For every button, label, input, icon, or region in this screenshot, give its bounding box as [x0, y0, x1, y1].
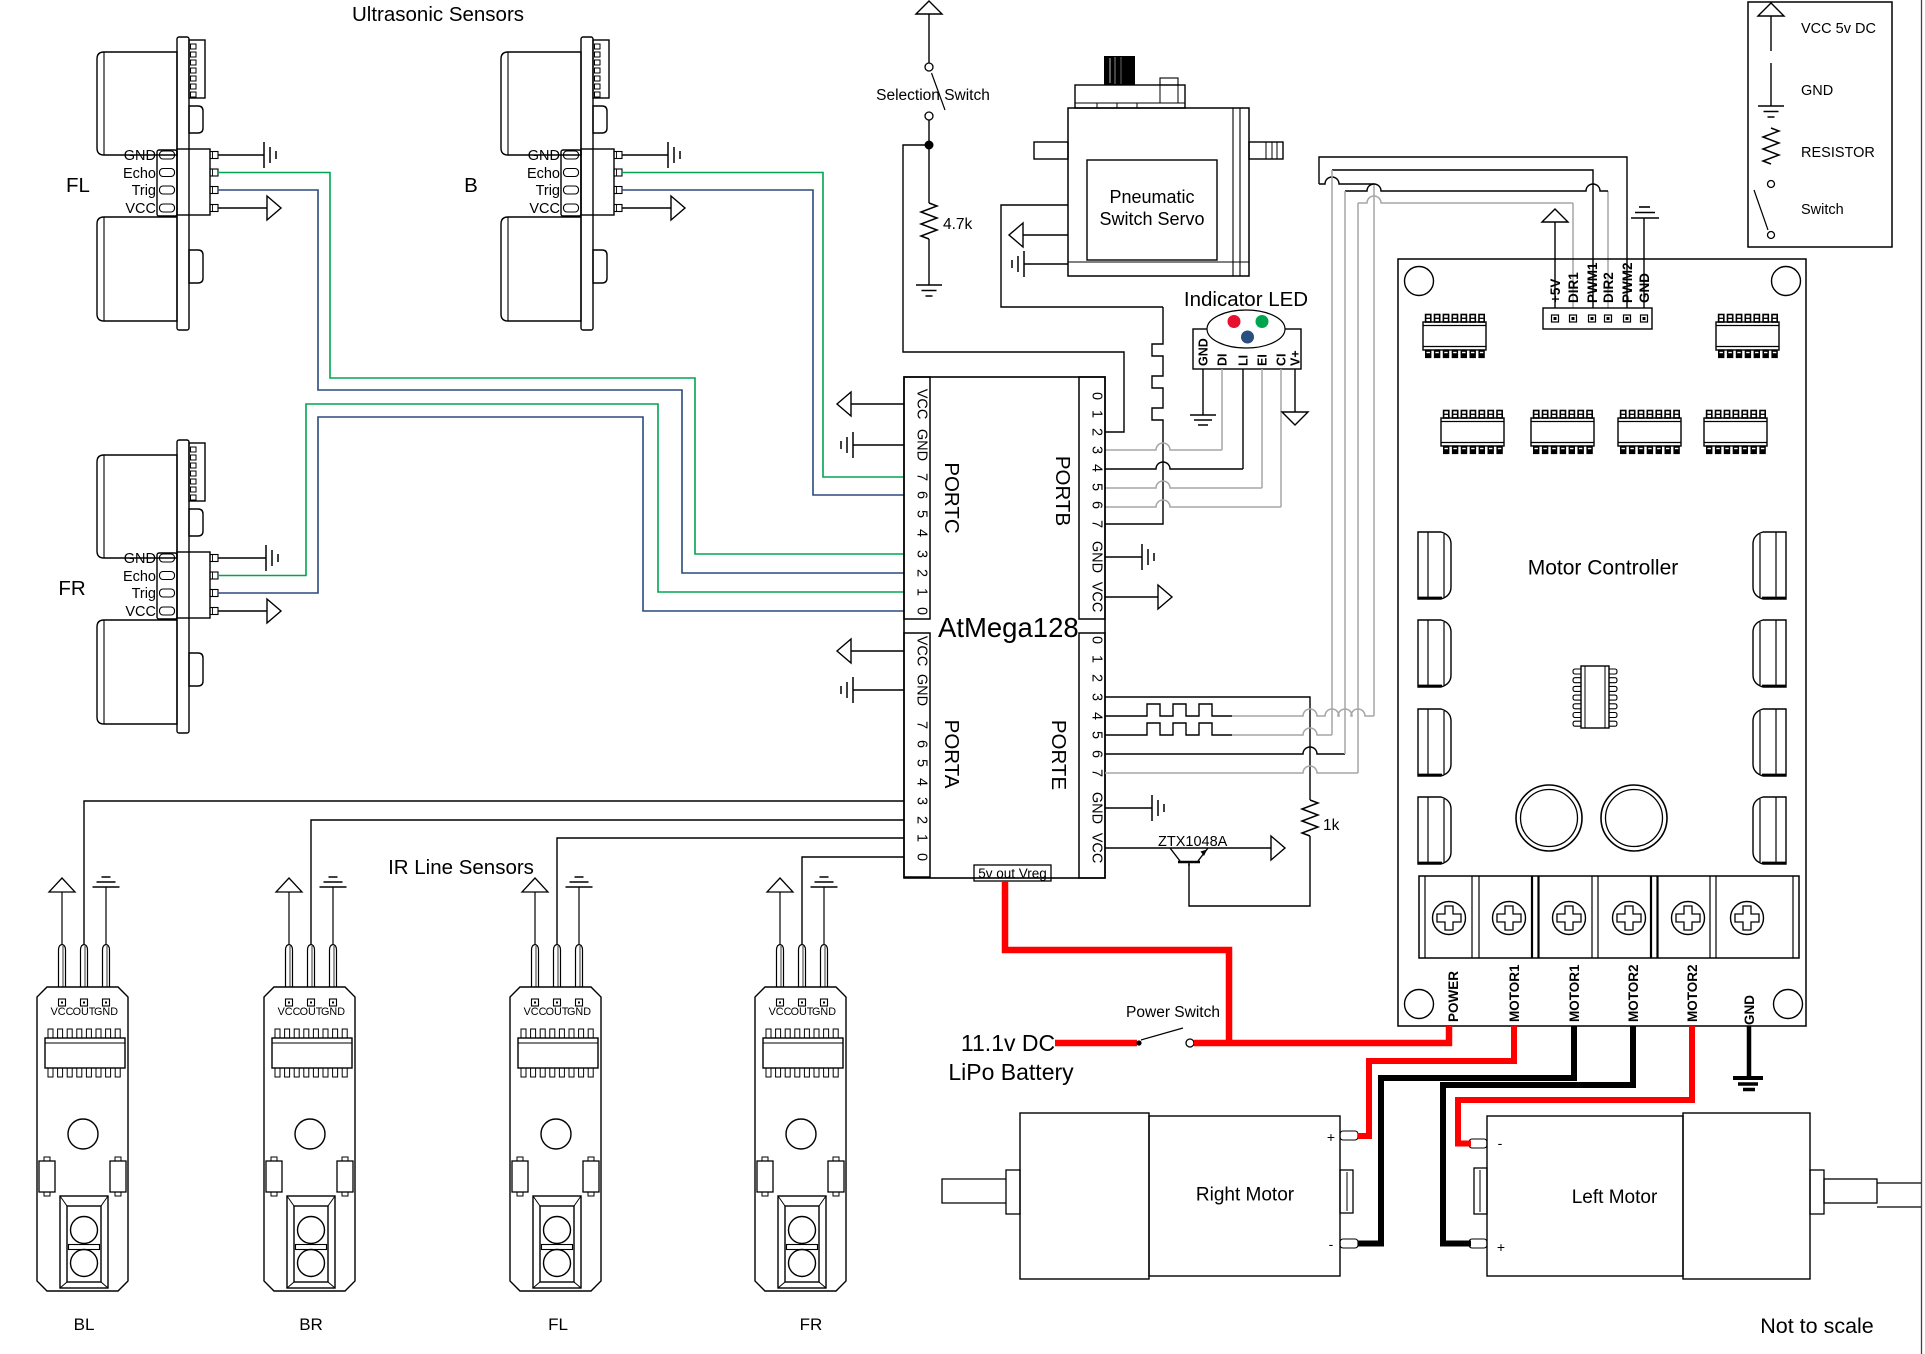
FET left 1 — [1418, 532, 1451, 599]
svg-text:PWM2: PWM2 — [1620, 263, 1635, 304]
svg-text:FL: FL — [66, 174, 90, 197]
wire vertical — [1373, 184, 1375, 716]
svg-text:+: + — [1497, 1239, 1505, 1255]
PORTA connector — [904, 633, 930, 877]
svg-text:RESISTOR: RESISTOR — [1801, 145, 1875, 161]
wire to PORTB2 — [903, 145, 1124, 432]
B Trig wire (blue) to PORTC6 — [622, 190, 904, 495]
svg-text:Not to scale: Not to scale — [1760, 1314, 1874, 1338]
svg-text:VCC: VCC — [125, 201, 156, 217]
Right Motor - terminal — [1340, 1239, 1358, 1248]
svg-text:VCC: VCC — [914, 389, 930, 420]
PORTE VCC wire — [1105, 847, 1271, 849]
svg-text:4: 4 — [914, 778, 930, 786]
servo inner label panel — [1087, 160, 1217, 260]
terminal screw 2 — [1493, 902, 1526, 935]
svg-text:LI: LI — [1237, 355, 1251, 366]
red LED — [1228, 315, 1241, 328]
servo top hat — [1075, 85, 1185, 108]
svg-text:Trig: Trig — [536, 183, 560, 199]
red wire MOTOR2 to Left Motor - — [1458, 1026, 1692, 1144]
svg-text:Selection Switch: Selection Switch — [876, 87, 990, 104]
mounting hole — [1405, 267, 1434, 296]
legend switch — [1768, 181, 1775, 188]
svg-text:Trig: Trig — [132, 183, 156, 199]
svg-text:2: 2 — [1089, 428, 1105, 436]
svg-text:EI: EI — [1256, 354, 1270, 366]
PORTB GND wire — [1105, 556, 1142, 558]
VCC arrow — [1542, 209, 1568, 222]
svg-text:GND: GND — [1637, 273, 1652, 303]
ground (up) — [1631, 207, 1659, 218]
PORTE GND wire — [1105, 807, 1152, 809]
svg-text:7: 7 — [1089, 520, 1105, 528]
svg-text:MOTOR1: MOTOR1 — [1567, 964, 1582, 1022]
black wire MOTOR2 to Left Motor + — [1443, 1026, 1633, 1244]
svg-text:-: - — [1498, 1135, 1503, 1151]
svg-text:Power Switch: Power Switch — [1126, 1004, 1220, 1021]
servo knob — [1104, 56, 1135, 85]
svg-text:V+: V+ — [1289, 350, 1303, 366]
wire — [928, 239, 930, 285]
FET right 1 — [1753, 532, 1786, 599]
PORTE4 wire with PWM pulse — [1105, 704, 1232, 716]
FL GND wire — [218, 154, 264, 156]
svg-text:VCC: VCC — [1089, 582, 1105, 613]
wire vertical — [1344, 191, 1346, 754]
wire — [928, 120, 930, 145]
transistor Q1 ZTX1048A — [1170, 848, 1208, 866]
terminal screw 6 — [1731, 902, 1764, 935]
mounting hole — [1772, 267, 1801, 296]
svg-text:PWM1: PWM1 — [1585, 262, 1600, 303]
svg-text:PORTC: PORTC — [940, 462, 963, 534]
svg-text:BR: BR — [299, 1315, 323, 1334]
svg-text:5v out Vreg: 5v out Vreg — [978, 866, 1047, 881]
Left Motor + terminal — [1469, 1239, 1487, 1248]
FL Echo wire (green) to PORTC3 — [218, 173, 904, 555]
VCC arrow down — [1282, 412, 1308, 425]
terminal screw 5 — [1672, 902, 1705, 935]
Right Motor commutator — [1340, 1170, 1353, 1213]
ground — [916, 285, 942, 296]
selection switch VCC arrow — [916, 1, 942, 14]
ground — [841, 677, 853, 703]
IC chip U5 — [1531, 411, 1594, 454]
junction node — [925, 141, 934, 150]
FR GND wire — [218, 557, 266, 559]
svg-text:FR: FR — [800, 1315, 823, 1334]
svg-text:Trig: Trig — [132, 586, 156, 602]
LED header — [1193, 329, 1301, 369]
svg-text:4.7k: 4.7k — [943, 216, 973, 233]
PORTC connector — [904, 377, 930, 619]
red wire POWER stub — [1446, 1026, 1453, 1046]
FR Echo wire (green) to PORTC1 — [218, 404, 904, 592]
IR sensor FL2 — [510, 877, 601, 1291]
svg-text:1: 1 — [914, 834, 930, 842]
svg-text:GND: GND — [1089, 792, 1105, 824]
svg-text:+: + — [1327, 1129, 1335, 1145]
svg-text:VCC: VCC — [914, 636, 930, 667]
svg-text:7: 7 — [914, 473, 930, 481]
svg-text:4: 4 — [914, 529, 930, 537]
IR sensor BL — [37, 877, 128, 1291]
svg-text:5: 5 — [914, 510, 930, 518]
black wire GND terminal — [1747, 1026, 1752, 1076]
svg-text:MOTOR2: MOTOR2 — [1626, 964, 1641, 1022]
svg-text:6: 6 — [1089, 750, 1105, 758]
FET right 4 — [1753, 797, 1786, 864]
svg-text:IR Line Sensors: IR Line Sensors — [388, 856, 534, 879]
wire — [1189, 836, 1310, 906]
terminal screw 3 — [1553, 902, 1586, 935]
svg-text:0: 0 — [914, 853, 930, 861]
svg-text:DIR2: DIR2 — [1601, 272, 1616, 303]
svg-text:6: 6 — [1089, 501, 1105, 509]
B VCC arrow — [671, 196, 685, 220]
svg-text:PORTB: PORTB — [1051, 456, 1074, 526]
ground — [1142, 544, 1154, 570]
svg-text:GND: GND — [124, 551, 156, 567]
servo VCC wire — [1023, 234, 1068, 236]
svg-text:BL: BL — [74, 1315, 95, 1334]
Right Motor shaft — [942, 1179, 1006, 1203]
svg-text:LiPo Battery: LiPo Battery — [948, 1059, 1074, 1085]
PORTE3 wire to 1k resistor — [1105, 697, 1310, 800]
svg-text:7: 7 — [914, 721, 930, 729]
svg-text:Pneumatic: Pneumatic — [1109, 187, 1194, 207]
IC chip U8 (center DIP) — [1573, 666, 1617, 728]
svg-text:7: 7 — [1089, 769, 1105, 777]
wire vertical — [1357, 203, 1359, 773]
svg-text:0: 0 — [1089, 636, 1105, 644]
svg-text:5: 5 — [1089, 483, 1105, 491]
svg-text:3: 3 — [1089, 446, 1105, 454]
FL VCC wire — [218, 207, 267, 209]
svg-text:FR: FR — [58, 577, 85, 600]
wire BL OUT to PORTA3 — [84, 801, 904, 944]
svg-text:Switch Servo: Switch Servo — [1099, 209, 1204, 229]
FL Trig wire (blue) to PORTC2 — [218, 190, 904, 573]
svg-text:GND: GND — [528, 148, 560, 164]
IC chip U2 — [1423, 315, 1486, 358]
svg-text:0: 0 — [914, 607, 930, 615]
net DIR2-PORTE6 — [1607, 191, 1609, 308]
PORTE6 wire — [1105, 747, 1345, 754]
net DIR1-PORTE7 — [1572, 203, 1574, 308]
svg-text:3: 3 — [914, 550, 930, 558]
svg-text:Echo: Echo — [123, 166, 156, 182]
IR sensor FR2 — [755, 877, 846, 1291]
svg-text:1: 1 — [1089, 410, 1105, 418]
LED EI wire to PORTB5 — [1261, 369, 1263, 488]
svg-text:PORTE: PORTE — [1047, 720, 1070, 790]
svg-text:5: 5 — [914, 759, 930, 767]
IC chip U3 — [1716, 315, 1779, 358]
5v out Vreg box — [974, 865, 1051, 881]
svg-text:DI: DI — [1216, 354, 1230, 367]
FET right 2 — [1753, 620, 1786, 687]
LED LI wire to PORTB4 — [1242, 369, 1244, 469]
svg-text:B: B — [464, 174, 478, 197]
B GND wire — [622, 154, 668, 156]
resistor R2 1k — [1302, 800, 1318, 836]
svg-text:6: 6 — [914, 740, 930, 748]
svg-text:Indicator LED: Indicator LED — [1184, 288, 1308, 311]
+5V wire — [1554, 222, 1556, 308]
AtMega128 chip body — [904, 377, 1105, 878]
svg-text:1: 1 — [914, 588, 930, 596]
FL ground — [264, 142, 276, 168]
red wire switch to POWER terminal — [1194, 1040, 1452, 1047]
svg-text:5: 5 — [1089, 731, 1105, 739]
wire BR OUT to PORTA2 — [311, 820, 904, 944]
control header J1 — [1543, 308, 1652, 329]
selection switch SW1 — [925, 63, 933, 71]
svg-text:Left Motor: Left Motor — [1572, 1187, 1658, 1208]
svg-text:GND: GND — [1742, 995, 1757, 1025]
FR ground — [266, 545, 278, 571]
LED CI wire to PORTB6 — [1280, 369, 1282, 507]
PORTE7 wire — [1105, 766, 1358, 773]
svg-text:VCC 5v DC: VCC 5v DC — [1801, 21, 1876, 37]
PORTC VCC wire — [851, 403, 904, 405]
svg-text:AtMega128: AtMega128 — [938, 612, 1079, 643]
Left Motor commutator — [1474, 1168, 1487, 1214]
IC chip U7 — [1704, 411, 1767, 454]
svg-text:-: - — [1329, 1236, 1334, 1252]
VCC arrow — [1271, 836, 1285, 860]
svg-text:VCC: VCC — [125, 604, 156, 620]
ground — [841, 432, 853, 458]
ground — [1190, 415, 1216, 425]
PORTE5 wire with PWM pulse — [1105, 723, 1232, 735]
Right Motor gearbox — [1020, 1113, 1149, 1279]
svg-text:POWER: POWER — [1446, 971, 1461, 1022]
svg-text:MOTOR2: MOTOR2 — [1685, 964, 1700, 1022]
black wire MOTOR1 to Right Motor - — [1358, 1026, 1574, 1244]
svg-text:3: 3 — [914, 797, 930, 805]
svg-text:1k: 1k — [1323, 817, 1340, 834]
servo body — [1068, 108, 1249, 276]
servo VCC arrow — [1009, 223, 1023, 247]
svg-text:VCC: VCC — [529, 201, 560, 217]
ultrasonic sensor FR — [97, 440, 218, 733]
legend box — [1748, 2, 1892, 247]
mounting hole — [1774, 990, 1803, 1019]
servo ground — [1012, 251, 1024, 277]
shaft lines — [1877, 1182, 1921, 1184]
FR VCC wire — [218, 610, 267, 612]
servo left flange — [1034, 142, 1068, 159]
Left Motor gearbox — [1683, 1113, 1810, 1279]
servo right flange — [1249, 142, 1283, 159]
servo signal wire to PORTB7 net — [1001, 205, 1163, 307]
svg-text:GND: GND — [1197, 338, 1211, 366]
wire FL OUT to PORTA1 — [557, 838, 904, 944]
svg-text:CI: CI — [1275, 354, 1289, 367]
B Echo wire (green) to PORTC7 — [622, 173, 904, 478]
red wire MOTOR1 to Right Motor + — [1358, 1026, 1514, 1136]
svg-text:2: 2 — [914, 816, 930, 824]
IC chip U6 — [1618, 411, 1681, 454]
FR VCC arrow — [267, 599, 281, 623]
PORTC GND wire — [853, 444, 904, 446]
terminal block — [1419, 876, 1799, 958]
Left Motor shaft — [1810, 1170, 1824, 1214]
VCC arrow — [1158, 585, 1172, 609]
IR sensor BR — [264, 877, 355, 1291]
wire — [928, 145, 930, 203]
svg-text:GND: GND — [1801, 83, 1833, 99]
FL VCC arrow — [267, 196, 281, 220]
svg-text:6: 6 — [914, 491, 930, 499]
svg-text:11.1v DC: 11.1v DC — [961, 1030, 1055, 1056]
FET left 4 — [1418, 797, 1451, 864]
wire vertical — [1331, 170, 1333, 735]
svg-text:FL: FL — [548, 1315, 568, 1334]
PORTE connector — [1079, 633, 1105, 878]
FET left 2 — [1418, 620, 1451, 687]
wire FR OUT to PORTA0 — [802, 857, 904, 944]
PORTA GND wire — [853, 689, 904, 691]
legend resistor — [1763, 128, 1779, 164]
resistor R1 4.7k — [921, 203, 937, 239]
IC chip U4 — [1441, 411, 1504, 454]
svg-text:4: 4 — [1089, 712, 1105, 720]
svg-text:4: 4 — [1089, 464, 1105, 472]
svg-text:Right Motor: Right Motor — [1196, 1185, 1295, 1206]
GND wire — [1643, 218, 1645, 308]
Left Motor body — [1487, 1116, 1683, 1276]
svg-text:DIR1: DIR1 — [1566, 272, 1581, 303]
svg-text:MOTOR1: MOTOR1 — [1507, 964, 1522, 1022]
legend GND symbol — [1770, 63, 1772, 106]
Right Motor body — [1149, 1116, 1340, 1276]
svg-text:+5V: +5V — [1548, 279, 1563, 303]
svg-text:1: 1 — [1089, 655, 1105, 663]
legend VCC arrow — [1758, 3, 1784, 16]
ground (thick) — [1733, 1078, 1763, 1090]
VCC arrow — [837, 392, 851, 416]
net PWM2-PORTE4 — [1319, 157, 1627, 308]
red wire 5v Vreg — [1005, 881, 1229, 1043]
svg-text:Motor Controller: Motor Controller — [1528, 557, 1679, 580]
PORTB connector — [1079, 377, 1105, 619]
blue LED — [1241, 331, 1254, 344]
LED V+ wire — [1294, 369, 1296, 412]
FET left 3 — [1418, 709, 1451, 776]
wire — [928, 14, 930, 63]
LED DI wire to PORTB3 — [1221, 369, 1223, 450]
mounting hole — [1405, 990, 1434, 1019]
svg-text:0: 0 — [1089, 392, 1105, 400]
PORTA VCC wire — [851, 650, 904, 652]
PORTB VCC wire — [1105, 596, 1158, 598]
svg-text:VCC: VCC — [1089, 833, 1105, 864]
svg-text:GND: GND — [914, 429, 930, 461]
svg-text:3: 3 — [1089, 693, 1105, 701]
svg-text:Ultrasonic Sensors: Ultrasonic Sensors — [352, 3, 524, 26]
svg-text:GND: GND — [124, 148, 156, 164]
B VCC wire — [622, 207, 671, 209]
svg-text:Switch: Switch — [1801, 202, 1844, 218]
FET right 3 — [1753, 709, 1786, 776]
power switch SW2 — [1136, 1040, 1141, 1045]
terminal screw 1 — [1433, 902, 1466, 935]
FR Trig wire (blue) to PORTC0 — [218, 417, 904, 611]
servo GND wire — [1024, 263, 1068, 265]
VCC arrow — [837, 639, 851, 663]
ultrasonic sensor FL — [97, 37, 218, 330]
svg-text:Echo: Echo — [123, 569, 156, 585]
page right border — [1921, 0, 1923, 1354]
ground — [1152, 795, 1164, 821]
capacitor C2 — [1601, 785, 1667, 851]
svg-text:GND: GND — [914, 674, 930, 706]
B ground — [668, 142, 680, 168]
LED GND pin wire — [1202, 369, 1204, 415]
Left Motor - terminal — [1469, 1139, 1487, 1148]
net PWM1-PORTE5 — [1332, 170, 1593, 308]
terminal screw 4 — [1613, 902, 1646, 935]
capacitor C1 — [1516, 785, 1582, 851]
svg-text:2: 2 — [1089, 674, 1105, 682]
LED dome ellipse — [1207, 310, 1285, 348]
svg-text:GND: GND — [1089, 541, 1105, 573]
ultrasonic sensor B — [501, 37, 622, 330]
svg-text:2: 2 — [914, 569, 930, 577]
green LED — [1256, 315, 1269, 328]
battery red wire — [1055, 1040, 1137, 1047]
svg-text:PORTA: PORTA — [940, 720, 963, 789]
Right Motor + terminal — [1340, 1131, 1358, 1140]
svg-text:Echo: Echo — [527, 166, 560, 182]
wire: castellated vertical to PORTB7 — [1105, 307, 1163, 524]
motor controller board — [1398, 259, 1806, 1026]
